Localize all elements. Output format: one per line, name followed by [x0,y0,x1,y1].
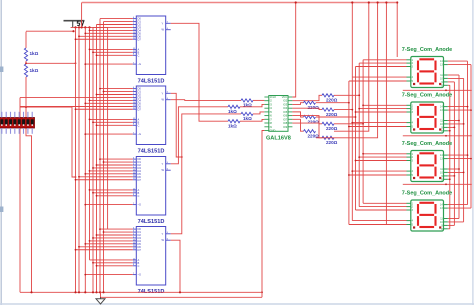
junction [89,189,91,191]
junction [75,108,77,110]
junction [295,1,297,3]
junction [377,1,379,3]
junction [385,1,387,3]
resistor R3 1k [241,99,253,102]
wire right tap [448,106,468,108]
junction [78,26,80,28]
junction [348,102,350,104]
junction [463,172,465,174]
junction [88,26,90,28]
wire right tap [448,123,464,125]
wire pin feed [97,234,133,236]
svg-text:C: C [138,194,140,198]
svg-text:VCC: VCC [282,95,288,99]
wire pin feed [93,237,133,239]
power VCC 5V symbol [64,21,85,28]
junction [362,104,364,106]
wire pin feed [79,35,133,37]
wire pin feed [90,99,133,101]
7-segment display DS4 [407,200,448,231]
wire U3 Y out [171,107,228,164]
junction [458,168,460,170]
wire rail drop x386 [385,3,387,225]
svg-text:IO9: IO9 [283,125,288,129]
wire pin feed [104,161,133,163]
wire right tap [448,171,464,173]
svg-text:74LS151D: 74LS151D [138,79,165,85]
junction [72,30,74,32]
wire pin feed [100,158,133,160]
wire GAL out 6 [292,123,322,138]
junction [78,246,80,248]
svg-text:7-Seg_Com_Anode: 7-Seg_Com_Anode [402,47,452,53]
junction [75,176,77,178]
svg-text:C: C [138,264,140,268]
7-segment display DS1 [407,57,448,88]
junction [96,164,98,166]
svg-text:7-Seg_Com_Anode: 7-Seg_Com_Anode [402,141,452,147]
wire data vertical [96,25,98,293]
wire pin feed [93,167,133,169]
resistor R5 1k [241,112,253,115]
junction [92,237,94,239]
wire bus tap [359,206,406,208]
junction [92,121,94,123]
wire res to bus 1 [334,94,359,96]
wire GAL out 5 [292,119,303,131]
wire pin feed [97,265,133,267]
wire right tap [448,178,450,180]
junction [355,116,357,118]
wire pin feed [97,54,133,56]
junction [179,291,181,293]
junction [351,1,353,3]
junction [99,88,101,90]
wire R4 out [240,104,264,106]
wire right bus 0 [467,61,469,205]
wire GAL out 2 [292,108,322,109]
svg-text:7-Seg_Com_Anode: 7-Seg_Com_Anode [402,191,452,197]
wire long feed [20,106,133,108]
junction [78,176,80,178]
junction [74,291,76,293]
wire bus tap [359,108,406,110]
wire resistor chain bottom [25,77,27,107]
junction [78,35,80,37]
svg-text:IO7: IO7 [283,117,288,121]
svg-text:220Ω: 220Ω [326,112,338,117]
resistor 220 #6 [322,136,334,139]
wire U2 Y out [171,93,182,157]
junction [102,291,104,293]
wire R5 out [253,112,264,114]
wire pin feed [100,88,133,90]
junction [89,49,91,51]
svg-text:IO3: IO3 [283,102,288,106]
wire right bus 4 [453,82,455,226]
junction [467,154,469,156]
wire right tap [448,218,459,220]
svg-text:IO5: IO5 [283,110,288,114]
wire pin feed [93,262,133,264]
74LS151D U2 [133,86,171,145]
junction [103,231,105,233]
junction [74,26,76,28]
junction [99,291,101,293]
wire rail drop x397 [396,3,398,58]
wire bus tap [356,66,407,68]
junction [99,228,101,230]
wire res to bus 2 [316,116,356,118]
wire res to bus 4 [316,102,349,104]
junction [362,123,364,125]
svg-text:C: C [138,53,140,57]
wire rail B to resistor chain [26,30,74,32]
wire 5V stem drop [81,3,83,28]
wire U2 W out [171,99,241,102]
junction [78,291,80,293]
wire right bus 2 [458,75,460,219]
wire bus tap [363,153,407,155]
junction [458,120,460,122]
wire pin feed [93,51,133,53]
svg-text:D7: D7 [138,37,142,41]
wire bus tap [352,76,406,78]
junction [96,54,98,56]
wire pin feed [90,118,133,120]
svg-text:220Ω: 220Ω [326,126,338,131]
wire data vertical [99,19,101,293]
wire bus6 to rail [334,3,369,132]
wire R1-R2 node tap [26,62,76,64]
wire right bus 5 [449,85,451,229]
wire data vertical [75,27,77,292]
wire pin feed [90,259,133,261]
wire right tap [448,207,471,209]
wire far left vertical [19,98,21,293]
junction [84,204,86,206]
svg-text:GAL16V8: GAL16V8 [266,136,291,142]
wire right tap [448,158,471,160]
wire bus tap [349,80,407,82]
wire bus tap [352,170,406,172]
wire GAL out 0 [292,95,322,100]
wire data vertical [78,27,80,292]
wire pin feed [97,164,133,166]
wire bus tap [349,126,407,128]
wire segment bus 2 [355,67,357,211]
junction [84,63,86,65]
wire pin feed [100,18,133,20]
svg-text:Y: Y [162,232,164,236]
wire pin feed [90,189,133,191]
wire right tap [448,120,459,122]
junction [84,26,86,28]
wire U1 Y out [171,23,228,121]
wire pin feed [93,26,133,28]
junction [470,109,472,111]
wire right tap [448,221,464,223]
wire right tap [448,84,450,86]
junction [25,62,27,64]
svg-text:1kΩ: 1kΩ [228,109,237,114]
7-segment display DS2 [407,102,448,133]
wire right tap [448,228,450,230]
junction [454,127,456,129]
wire right bus 1 [470,65,472,209]
wire U4 W out [171,240,180,292]
wire bus tap [352,220,406,222]
wire anode chain [403,183,472,185]
wire pin feed [85,133,132,135]
junction [30,291,32,293]
svg-text:GND: GND [270,128,276,132]
junction [96,234,98,236]
wire GAL out 3 [292,112,303,117]
svg-text:~G: ~G [138,273,142,277]
wire pin feed [104,91,133,93]
wire pin feed [90,48,133,50]
svg-text:~G: ~G [138,62,142,66]
junction [445,135,447,137]
svg-text:1kΩ: 1kΩ [228,123,237,128]
junction [92,262,94,264]
wire DIP vertical [26,107,32,292]
wire pin feed [100,228,133,230]
wire right tap [448,74,459,76]
junction [84,102,86,104]
resistor 220 #0 [322,94,334,97]
svg-text:Y: Y [162,91,164,95]
resistor R1 1k [24,48,27,61]
junction [99,158,101,160]
svg-text:74LS151D: 74LS151D [138,149,165,155]
junction [103,91,105,93]
junction [445,183,447,185]
junction [75,249,77,251]
wire bus tap [356,111,407,113]
wire pin feed [85,173,132,175]
resistor R2 1k [24,64,27,77]
wire pin feed [104,231,133,233]
wire pullup node [20,107,76,177]
wire bus tap [363,202,407,204]
junction [358,108,360,110]
74LS151D U3 [133,157,171,216]
74LS151D U1 [133,16,171,75]
wire right tap [448,154,468,156]
wire pin feed [76,108,133,110]
junction [89,30,91,32]
junction [89,240,91,242]
svg-text:Y: Y [162,162,164,166]
junction [358,94,360,96]
wire R6 out [240,119,264,121]
wire rail drop x352 [351,3,353,78]
junction [84,133,86,135]
GAL16V8 U5 [264,95,292,132]
junction [355,111,357,113]
wire right tap [448,175,455,177]
svg-text:Y: Y [162,21,164,25]
junction [75,179,77,181]
wire pin feed [85,243,132,245]
resistor R6 1k [228,120,240,123]
wire bus tap [356,160,407,162]
wire pin feed [90,29,133,31]
wire U4 Y out [171,114,241,234]
svg-text:220Ω: 220Ω [308,105,320,110]
wire right bus 3 [463,78,465,222]
svg-text:1kΩ: 1kΩ [30,51,39,56]
junction [445,89,447,91]
wire bus tap [349,174,407,176]
wire data vertical [103,22,105,293]
wire pin feed [97,24,133,26]
svg-text:D7: D7 [138,248,142,252]
junction [84,173,86,175]
wire R3 out [253,99,264,101]
wire resistor chain top [25,32,27,48]
svg-text:~G: ~G [138,203,142,207]
svg-text:IO2: IO2 [283,99,288,103]
wire right tap [448,204,468,206]
junction [92,51,94,53]
svg-text:C: C [138,123,140,127]
wire bottom bus 2 [101,292,263,297]
wire right tap [448,168,459,170]
wire pin feed [85,32,132,34]
junction [103,161,105,163]
svg-text:220Ω: 220Ω [308,119,320,124]
svg-text:220Ω: 220Ω [326,98,338,103]
wire bus tap [363,59,407,61]
junction [81,26,83,28]
wire bus tap [363,104,407,106]
svg-text:D7: D7 [138,107,142,111]
junction [96,265,98,267]
wire bus tap [359,156,406,158]
junction [92,167,94,169]
svg-text:220Ω: 220Ω [326,140,338,145]
svg-text:74LS151D: 74LS151D [138,219,165,225]
junction [454,175,456,177]
junction [355,160,357,162]
svg-text:1CLK: 1CLK [270,95,277,99]
svg-text:7-Seg_Com_Anode: 7-Seg_Com_Anode [402,93,452,99]
wire GAL out 1 [292,103,303,105]
wire right tap [448,64,471,66]
wire between resistors [25,61,27,64]
wire pin feed [79,246,133,248]
wire pin feed [85,102,132,104]
junction [181,156,183,158]
junction [95,291,97,293]
wire pin feed [85,63,132,65]
wire pin feed [93,121,133,123]
wire res to bus 0 [334,123,363,125]
wire GAL VCC [292,3,295,98]
junction [75,38,77,40]
wire bus tap [352,122,406,124]
svg-text:D7: D7 [138,178,142,182]
junction [348,126,350,128]
wire long feed [20,97,133,99]
junction [368,1,370,3]
junction [89,119,91,121]
wire pin feed [97,195,133,197]
wire segment bus 0 [362,60,364,204]
wire pin feed [85,274,132,276]
74LS151D U4 [133,227,171,286]
junction [89,100,91,102]
wire bus tap [356,209,407,211]
junction [96,195,98,197]
wire pin feed [97,94,133,96]
junction [351,122,353,124]
wire right tap [448,130,450,132]
wire bus7 to rail [316,3,378,138]
junction [348,174,350,176]
resistor 220 #1 [304,101,316,104]
wire pin feed [76,179,133,181]
junction [396,1,398,3]
junction [449,178,451,180]
junction [463,123,465,125]
resistor 220 #3 [304,115,316,118]
junction [96,94,98,96]
junction [84,32,86,34]
junction [358,156,360,158]
junction [92,291,94,293]
wire data vertical [92,28,94,293]
resistor 220 #5 [304,130,316,133]
wire segment bus 1 [358,63,360,207]
wire pin feed [85,204,132,206]
wire bus tap [349,224,407,226]
junction [261,291,263,293]
wire pin feed [90,240,133,242]
svg-text:1kΩ: 1kΩ [30,68,39,73]
junction [449,130,451,132]
wire right tap [448,60,468,62]
wire bus tap [359,62,406,64]
wire right tap [448,224,455,226]
7-segment display DS3 [407,151,448,182]
wire res to bus 3 [334,109,352,111]
svg-text:~G: ~G [138,132,142,136]
junction [89,170,91,172]
wire data vertical [89,27,91,260]
junction [92,192,94,194]
resistor 220 #2 [322,108,334,111]
wire pin feed [76,38,133,40]
junction [467,106,469,108]
wire pin feed [79,176,133,178]
junction [351,170,353,172]
svg-text:1kΩ: 1kΩ [243,116,252,121]
ground symbol [96,297,105,304]
wire anode chain [403,89,472,91]
wire segment bus 3 [351,77,353,221]
wire right tap [448,81,455,83]
junction [84,274,86,276]
junction [84,243,86,245]
wire pin feed [104,21,133,23]
wire pin feed [90,170,133,172]
wire bottom bus [20,291,262,293]
junction [25,106,27,108]
